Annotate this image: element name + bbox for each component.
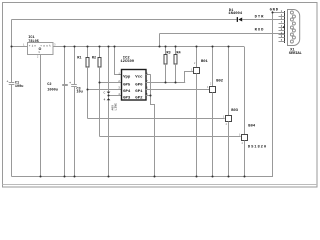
diode clamp on LINE — [107, 92, 111, 94]
wire left vertical lower — [11, 85, 13, 177]
svg-text:78L05: 78L05 — [28, 40, 39, 44]
diode D1 — [228, 9, 243, 22]
wire GP0 run — [150, 82, 185, 84]
svg-text:SERIAL: SERIAL — [289, 52, 303, 56]
svg-text:R3: R3 — [166, 52, 170, 56]
svg-text:1: 1 — [223, 115, 225, 118]
svg-text:100u: 100u — [15, 85, 24, 89]
sensor B03 — [223, 47, 239, 177]
wire GP5 from R2 — [100, 82, 122, 84]
wire GP3 long run to B03 — [88, 118, 225, 120]
svg-text:12C509: 12C509 — [120, 60, 134, 64]
svg-text:R4: R4 — [176, 52, 181, 56]
svg-text:R2: R2 — [92, 56, 96, 60]
svg-text:GP3: GP3 — [123, 97, 131, 101]
svg-text:2: 2 — [226, 123, 228, 126]
svg-text:1: 1 — [191, 68, 193, 71]
svg-text:GP5: GP5 — [123, 84, 131, 88]
resistor R2 — [92, 47, 101, 68]
svg-text:GP1: GP1 — [135, 90, 143, 94]
wire left vertical upper — [11, 20, 13, 83]
IC2 right stubs — [146, 74, 151, 76]
svg-text:+in: +in — [29, 43, 37, 47]
svg-text:DS1820: DS1820 — [248, 146, 267, 150]
voltage regulator IC1 78L05 — [23, 36, 56, 59]
connector mark pin row5 — [283, 26, 285, 28]
svg-text:LINE: LINE — [114, 103, 118, 111]
wire Vss/GP2 drop — [150, 75, 152, 105]
frame inner bottom line — [3, 184, 318, 186]
svg-text:GP0: GP0 — [135, 84, 143, 88]
wire gnd to pin1 — [272, 12, 285, 14]
svg-text:1: 1 — [23, 43, 25, 46]
wire C3 vertical lower — [74, 86, 76, 177]
svg-text:10u: 10u — [76, 91, 82, 95]
wire RXD — [160, 33, 285, 35]
svg-text:GP2: GP2 — [135, 97, 143, 101]
svg-text:C2: C2 — [47, 83, 51, 87]
svg-text:3: 3 — [54, 43, 56, 46]
wire Vdd feed — [114, 47, 116, 75]
svg-text:2: 2 — [194, 62, 196, 65]
svg-text:1: 1 — [207, 86, 209, 89]
wire C3 vertical upper — [74, 47, 76, 85]
resistor R3 — [164, 47, 171, 83]
svg-text:1N4004: 1N4004 — [228, 12, 243, 16]
wire GP0 dogleg up — [184, 72, 186, 83]
svg-text:Vpp: Vpp — [123, 76, 131, 80]
svg-text:B01: B01 — [201, 60, 209, 64]
wire IC1 gnd pin — [40, 55, 42, 177]
svg-text:DTR: DTR — [255, 16, 265, 20]
svg-text:R1: R1 — [77, 56, 81, 60]
wire R2 down — [99, 67, 101, 137]
wire into B01 — [184, 71, 194, 73]
microcontroller IC2 12C509 — [120, 57, 146, 101]
resistor R4 — [174, 47, 182, 83]
wire C2 vertical upper — [64, 47, 66, 85]
sensor B04 — [239, 47, 267, 177]
wire ground riser — [272, 11, 274, 176]
sensor B02 — [207, 47, 224, 177]
svg-text:4: 4 — [104, 97, 106, 101]
wire C2 vertical lower — [64, 86, 66, 177]
connector X1 DB9 — [279, 10, 303, 57]
wire GP1 run to B02 — [150, 89, 210, 91]
svg-text:2: 2 — [242, 142, 244, 145]
svg-text:B03: B03 — [231, 109, 239, 113]
capacitor C2 — [47, 83, 68, 92]
wire DTR diode to connector — [242, 19, 284, 21]
wire RXD drop to rail — [159, 34, 161, 47]
diode clamp 2 on LINE — [107, 98, 111, 100]
wire top rail to diode — [12, 19, 237, 21]
svg-text:B02: B02 — [216, 80, 224, 84]
wire LINE vertical lower — [108, 94, 110, 177]
wire R1 down — [87, 67, 89, 119]
svg-text:+: + — [6, 80, 8, 84]
svg-text:+: + — [69, 82, 71, 86]
svg-text:1000u: 1000u — [47, 88, 58, 92]
IC2 pin numbers — [118, 72, 148, 96]
svg-text:B04: B04 — [248, 124, 256, 128]
wire GP4 from R1 — [88, 89, 122, 91]
svg-text:RXD: RXD — [255, 28, 265, 32]
svg-text:Vcc: Vcc — [135, 76, 143, 80]
svg-text:GP4: GP4 — [123, 90, 131, 94]
svg-text:C: C — [104, 90, 106, 94]
wire LINE vertical upper — [108, 47, 110, 92]
svg-text:1: 1 — [239, 133, 241, 136]
wire GP3 stub — [109, 95, 122, 97]
wire +5V rail — [12, 46, 28, 48]
sensor B01 — [191, 47, 209, 177]
wire ground rail — [12, 176, 274, 178]
svg-text:2: 2 — [210, 83, 212, 86]
capacitor C3 — [69, 82, 83, 95]
resistor R1 — [77, 47, 89, 68]
svg-text:2: 2 — [37, 56, 39, 59]
wire R2 long run to B04 — [100, 136, 241, 138]
capacitor C1 — [6, 80, 23, 88]
